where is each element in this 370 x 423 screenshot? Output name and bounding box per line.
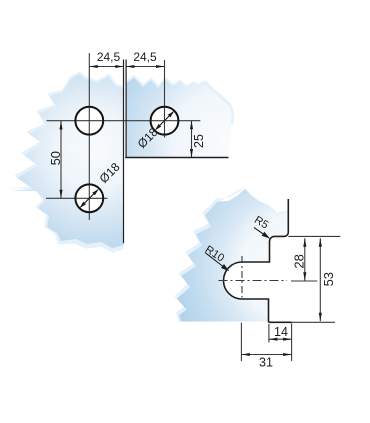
leader line R10 — [205, 253, 227, 270]
extension line notch lower — [268, 324, 270, 343]
arrow 24,5 left outer — [89, 65, 98, 68]
cutout profile — [224, 199, 289, 322]
extension line 28 bottom — [291, 280, 317, 282]
hole fill top-left — [75, 107, 103, 135]
right glass panel — [126, 78, 232, 157]
arrow 24,5 left inner — [115, 65, 124, 68]
TOP FIGURE — [46, 53, 200, 220]
right panel left edge — [125, 60, 127, 158]
arrow 31 left — [241, 353, 250, 356]
arrow 24,5 right inner — [126, 65, 134, 68]
notch bottom edge — [269, 321, 292, 323]
arrow 14 right — [283, 338, 292, 341]
extension line R10 center lower — [240, 323, 242, 361]
vertical extension line right hole — [164, 60, 166, 138]
svg-text:28: 28 — [291, 254, 306, 268]
dimension line 25 — [191, 121, 193, 158]
dimension line 14 — [269, 338, 292, 340]
diameter arrow bottom-left hole — [81, 190, 97, 206]
vertical centerline through left holes — [88, 53, 90, 220]
right panel bottom edge — [125, 157, 228, 159]
svg-text:31: 31 — [259, 356, 273, 370]
hole right — [151, 107, 179, 135]
bottom glass panel — [177, 189, 288, 322]
left glass panel — [11, 75, 124, 249]
dimension line 53 — [319, 238, 321, 321]
svg-text:14: 14 — [274, 325, 288, 339]
horizontal centerline bottom-left hole — [46, 197, 108, 199]
arrow 25 top — [190, 121, 193, 130]
diameter arrow right hole — [156, 113, 172, 129]
arrow 50 top — [59, 121, 62, 130]
extension line glass edge lower — [291, 324, 293, 362]
dimension line 24,5 right — [126, 66, 165, 68]
dimension line 50 — [60, 121, 62, 198]
arrow 53 top — [319, 238, 322, 247]
leader arrow R5 — [262, 232, 270, 239]
left panel right edge — [123, 60, 125, 244]
svg-text:24,5: 24,5 — [97, 50, 121, 64]
svg-text:25: 25 — [192, 134, 206, 148]
svg-text:50: 50 — [48, 151, 63, 165]
extension line bottom (53) — [292, 321, 335, 323]
hole bottom-left — [75, 184, 103, 212]
centerline R10 vertical — [241, 256, 243, 298]
horizontal centerline through top holes — [47, 120, 201, 122]
extension line top (53/28) — [288, 235, 340, 237]
leader arrow R10 — [221, 264, 229, 271]
arrow 50 bottom — [59, 190, 62, 199]
dimension line 28 — [304, 238, 306, 281]
hole fill bottom-left — [75, 184, 103, 212]
arrow 53 bottom — [319, 313, 322, 322]
arrow 31 right — [283, 353, 292, 356]
right glass panel torn-edge echo layer — [126, 75, 234, 156]
arrow 28 bottom — [303, 272, 306, 281]
dimension line 31 — [241, 354, 291, 356]
arrow 28 top — [303, 238, 306, 247]
leader line R5 — [254, 228, 266, 237]
arrow 24,5 right outer — [156, 65, 165, 68]
arrow 25 bottom — [190, 149, 193, 158]
dimension line 24,5 left — [89, 66, 124, 68]
bottom glass panel torn-edge echo layer — [174, 185, 246, 322]
hole top-left — [75, 107, 103, 135]
svg-text:53: 53 — [321, 272, 336, 286]
arrow 14 left — [269, 338, 278, 341]
centerline R10 horizontal — [219, 280, 288, 282]
svg-text:24,5: 24,5 — [133, 50, 157, 64]
hole fill right — [151, 107, 179, 135]
left glass panel torn-edge echo layer — [7, 72, 123, 253]
